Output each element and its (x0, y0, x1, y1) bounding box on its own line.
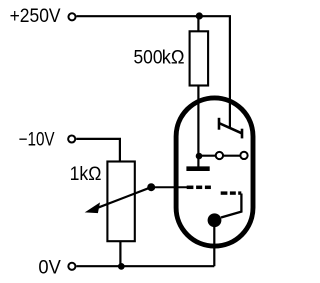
grid G1 (dashed, control) (187, 186, 211, 190)
potentiometer wiper arrow (95, 187, 151, 209)
svg-text:−10V: −10V (19, 130, 55, 151)
wire 0V rail (76, 265, 214, 267)
node pot/0V junction (118, 263, 125, 270)
wire -10V to pot top (76, 139, 120, 162)
tube V1 envelope (176, 98, 253, 246)
grid G2 (dashed, tied to cathode) (221, 191, 242, 194)
wire +250V rail to top-right corner (77, 16, 230, 128)
svg-text:0V: 0V (38, 257, 61, 278)
wire wiper to grid G1 (151, 186, 187, 188)
wire cathode to 0V rail (213, 224, 215, 266)
terminal -10V (68, 135, 75, 142)
svg-text:500: 500 (134, 47, 163, 68)
resistor R1 500k body (190, 31, 209, 85)
wire grid G2 to cathode (221, 194, 241, 218)
terminal pin circle 1 (216, 152, 223, 159)
wire anode node to pin circles (199, 155, 243, 157)
terminal 0V (68, 263, 75, 270)
wire pot bottom to 0V rail (119, 241, 121, 266)
node wiper junction (147, 183, 155, 191)
wire rail junction through resistor to anode node and plate bar (197, 16, 199, 167)
terminal pin circle 2 (240, 152, 247, 159)
anode plate bar (186, 166, 209, 171)
svg-text:kΩ: kΩ (162, 47, 185, 68)
svg-text:+250V: +250V (10, 6, 61, 27)
terminal +250V (68, 13, 75, 20)
node anode junction inside tube (196, 153, 203, 160)
potentiometer R2 1k body (107, 162, 134, 242)
cathode dot (208, 213, 222, 227)
anode slanted plate (top electrode) (219, 118, 242, 139)
svg-text:1kΩ: 1kΩ (70, 164, 102, 185)
node junction on +250V rail (196, 12, 203, 19)
